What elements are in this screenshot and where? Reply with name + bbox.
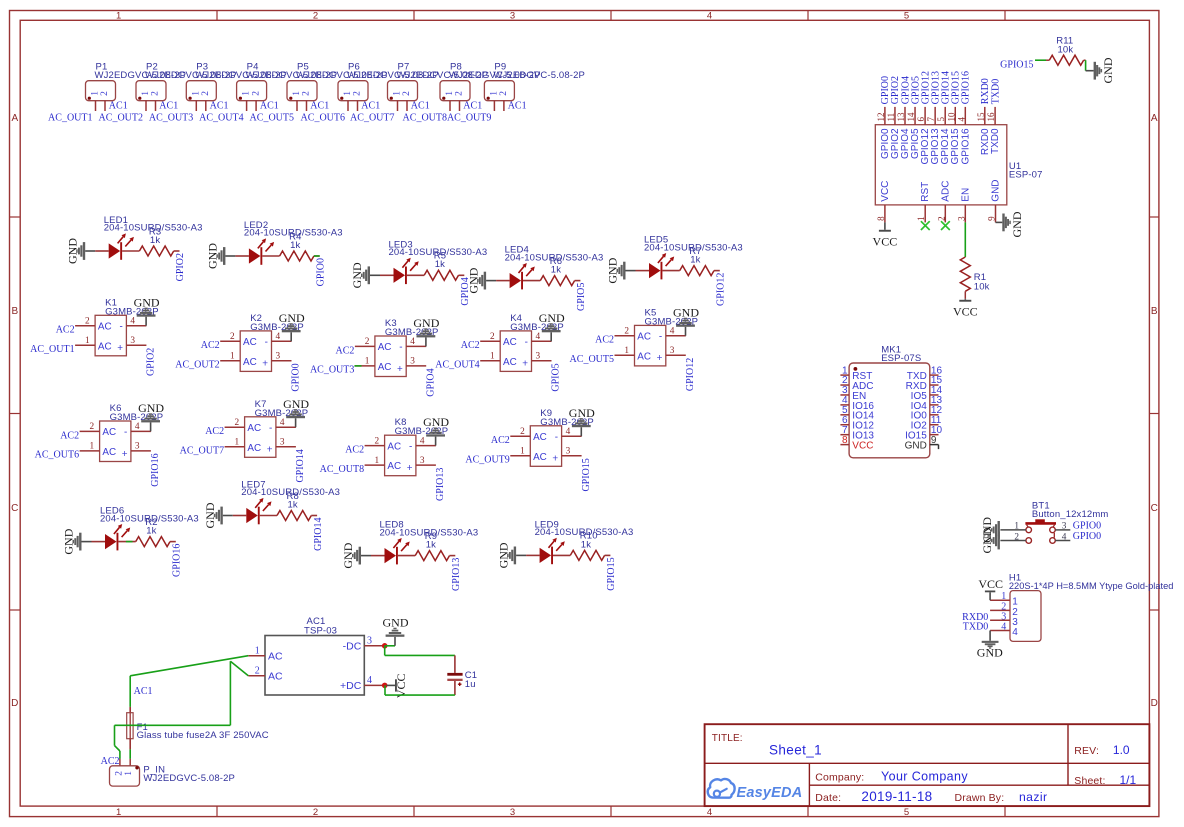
resistor R6 1k [523,256,580,286]
svg-text:D: D [11,698,18,709]
ground at LED3 [350,262,380,288]
svg-text:1: 1 [292,91,302,96]
svg-text:GPIO5: GPIO5 [576,283,587,311]
ground at K4 pin 4 [539,311,565,341]
U1 pin 16 TXD0 [986,107,1001,154]
svg-text:GPIO13: GPIO13 [451,558,462,591]
svg-text:AC1: AC1 [411,101,430,112]
svg-text:Drawn By:: Drawn By: [955,792,1005,804]
svg-text:4: 4 [707,807,712,818]
svg-text:VCC: VCC [873,235,898,249]
svg-text:1: 1 [230,352,235,362]
svg-text:+: + [122,449,128,460]
svg-text:GPIO15: GPIO15 [581,458,592,491]
svg-text:+: + [267,445,273,456]
svg-text:1k: 1k [551,265,561,276]
svg-text:-: - [120,321,123,332]
svg-text:VCC: VCC [852,441,873,452]
resistor R9 1k [398,531,455,561]
U1 pin 9 GND [987,179,1002,222]
svg-text:ESP-07S: ESP-07S [881,353,921,364]
MK1 pin 4 IO16 [840,395,874,412]
wire F1 to P_IN pin 1 [129,749,131,759]
svg-text:AC2: AC2 [56,325,75,336]
svg-text:2: 2 [201,91,211,96]
U1 pin 15 RXD0 [976,107,991,155]
svg-text:4: 4 [1012,627,1018,638]
svg-text:2: 2 [313,807,318,818]
connector P6 [338,62,439,111]
resistor R5 1k [407,251,464,281]
svg-text:-DC: -DC [343,640,362,652]
H1 pin 4 [990,622,1018,639]
svg-text:1: 1 [365,357,370,367]
svg-text:2: 2 [151,91,161,96]
wire to R11 [1035,59,1046,61]
svg-text:GND: GND [673,305,699,319]
svg-text:Date:: Date: [815,792,841,804]
svg-text:AC_OUT4: AC_OUT4 [199,112,243,123]
svg-text:AC2: AC2 [345,445,364,456]
svg-text:4: 4 [367,675,372,686]
module MK1 ESP-07S [849,345,930,458]
svg-text:Sheet:: Sheet: [1074,775,1105,787]
svg-text:+: + [262,359,268,370]
svg-text:1: 1 [124,771,134,776]
svg-text:GND: GND [977,645,1003,659]
svg-text:4: 4 [956,117,966,122]
svg-text:-: - [525,337,528,348]
svg-text:GND: GND [539,311,565,325]
svg-text:3: 3 [367,636,372,647]
svg-text:AC2: AC2 [461,340,480,351]
svg-text:9: 9 [987,216,997,221]
svg-text:WJ2EDGVC-5.08-2P: WJ2EDGVC-5.08-2P [143,773,235,784]
svg-text:1: 1 [255,645,260,656]
svg-text:1: 1 [343,91,353,96]
ground at LED2 [206,243,236,269]
resistor R11 10k [1046,36,1086,66]
wire C1 to +DC [385,685,455,695]
svg-text:GND: GND [466,267,480,293]
AC1 pin 1 AC [248,645,283,662]
svg-text:1: 1 [191,91,201,96]
no-connect X at U1 RST [921,221,930,230]
svg-text:ADC: ADC [940,181,951,202]
svg-text:1: 1 [91,91,101,96]
svg-text:1: 1 [1014,522,1019,532]
module U1 ESP-07 [875,125,1042,205]
svg-text:C: C [1151,503,1158,514]
svg-text:AC: AC [533,432,547,443]
MK1 pin 1 RST [840,365,872,382]
svg-text:10: 10 [946,112,956,122]
svg-text:3: 3 [420,456,425,466]
svg-text:11: 11 [886,113,896,122]
power module AC1 TSP-03 [265,616,364,695]
svg-text:4: 4 [566,427,571,437]
svg-text:2: 2 [520,427,525,437]
svg-text:AC: AC [378,362,392,373]
AC1 pin 2 AC [248,665,283,682]
svg-text:4: 4 [1062,532,1067,542]
svg-text:AC_OUT2: AC_OUT2 [175,360,219,371]
power VCC at AC1 +DC [387,673,408,698]
ground at R11 [1086,57,1115,83]
connector P8 [440,62,541,111]
svg-text:GND: GND [341,542,355,568]
svg-text:TXD0: TXD0 [990,128,1001,154]
svg-text:AC1: AC1 [361,101,380,112]
connector P3 [186,62,287,111]
svg-text:AC_OUT7: AC_OUT7 [180,445,224,456]
svg-text:EasyEDA: EasyEDA [737,785,803,801]
svg-text:GND: GND [905,441,927,452]
LED LED5 [636,235,743,280]
svg-text:AC2: AC2 [201,340,220,351]
svg-text:AC1: AC1 [508,101,527,112]
svg-text:C: C [11,503,18,514]
svg-text:1: 1 [490,352,495,362]
svg-text:2: 2 [234,418,239,428]
button BT1 Button_12x12mm [1000,501,1108,544]
svg-text:GND: GND [413,316,439,330]
header H1 220S-1*4P [1009,572,1174,641]
svg-text:1: 1 [234,438,239,448]
svg-text:+: + [552,454,558,465]
svg-text:-: - [409,441,412,452]
svg-text:GPIO0: GPIO0 [315,258,326,286]
svg-text:AC_OUT9: AC_OUT9 [465,454,509,465]
svg-text:1: 1 [520,447,525,457]
svg-text:4: 4 [280,418,285,428]
svg-text:2: 2 [255,665,260,676]
svg-text:AC2: AC2 [205,426,224,437]
svg-text:GPIO14: GPIO14 [295,449,306,482]
svg-text:AC_OUT7: AC_OUT7 [350,112,394,123]
junction at +DC [382,683,388,689]
svg-text:GPIO4: GPIO4 [425,368,436,396]
svg-text:2: 2 [302,91,312,96]
svg-text:15: 15 [976,112,986,122]
svg-text:13: 13 [896,112,906,122]
svg-text:1: 1 [445,91,455,96]
capacitor C1 1u [447,655,477,695]
junction at -DC [382,643,388,649]
U1 pin 12 GPIO0 [876,107,891,159]
svg-text:nazir: nazir [1019,790,1047,804]
MK1 pin 16 TXD [907,365,943,382]
svg-text:GND: GND [991,179,1002,201]
resistor R3 1k [122,226,179,256]
ground at K7 pin 4 [283,397,309,427]
svg-text:2: 2 [365,337,370,347]
connector P4 [237,62,338,111]
U1 pin 13 GPIO4 [896,107,911,159]
svg-text:1: 1 [374,456,379,466]
svg-text:2: 2 [936,216,946,221]
svg-text:GND: GND [206,243,220,269]
ground at K5 pin 4 [673,305,699,335]
svg-text:GPIO0: GPIO0 [291,363,302,391]
MK1 pin 2 ADC [840,375,873,392]
ground at K3 pin 4 [413,316,439,346]
MK1 pin 11 IO2 [911,415,942,432]
svg-text:1u: 1u [465,679,476,690]
svg-text:Company:: Company: [815,772,864,784]
frame column numbers bottom [116,807,909,818]
svg-text:AC_OUT8: AC_OUT8 [403,112,447,123]
svg-text:AC1: AC1 [109,101,128,112]
svg-text:AC_OUT5: AC_OUT5 [250,112,294,123]
svg-text:TITLE:: TITLE: [712,733,743,744]
svg-text:4: 4 [536,332,541,342]
svg-text:2: 2 [85,317,90,327]
svg-text:AC1: AC1 [159,101,178,112]
svg-text:4: 4 [276,332,281,342]
U1 pin 11 GPIO2 [886,107,901,159]
resistor R7 1k [662,246,719,276]
svg-text:220S-1*4P H=8.5MM Ytype Gold-p: 220S-1*4P H=8.5MM Ytype Gold-plated [1009,581,1174,592]
svg-text:VCC: VCC [978,577,1003,591]
svg-text:GPIO15: GPIO15 [606,557,617,590]
svg-text:GND: GND [134,295,160,309]
ground at LED8 [341,542,371,568]
svg-text:8: 8 [876,216,886,221]
svg-text:AC: AC [503,357,517,368]
svg-text:GPIO16: GPIO16 [960,128,971,165]
svg-text:AC2: AC2 [335,345,354,356]
svg-text:4: 4 [670,327,675,337]
svg-text:+: + [117,343,123,354]
wire -DC to C1 [385,646,455,656]
svg-text:+: + [657,353,663,364]
svg-text:GND: GND [1010,211,1024,237]
svg-text:Sheet_1: Sheet_1 [769,743,822,758]
svg-text:GND: GND [62,528,76,554]
svg-text:8: 8 [842,435,848,446]
ground at H1 pin 4 [977,631,1003,660]
MK1 pin 14 IO5 [911,385,943,402]
svg-text:2: 2 [624,327,629,337]
svg-text:AC: AC [378,342,392,353]
connector P7 [388,62,489,111]
svg-text:1: 1 [85,336,90,346]
svg-text:TSP-03: TSP-03 [304,626,337,637]
svg-text:AC: AC [102,447,116,458]
svg-text:2: 2 [374,436,379,446]
svg-text:3: 3 [280,438,285,448]
svg-text:3: 3 [510,807,515,818]
svg-text:4: 4 [1001,622,1006,633]
svg-text:2: 2 [100,91,110,96]
ground at K6 pin 4 [138,401,164,431]
frame ruler ticks bottom [217,806,1005,817]
resistor R4 1k [262,231,319,261]
LED LED8 [371,520,478,565]
power VCC at H1 pin 1 [978,577,1003,600]
connector P_IN [110,759,236,786]
svg-text:AC_OUT9: AC_OUT9 [447,112,491,123]
U1 pin 7 GPIO13 [926,107,941,165]
svg-text:+: + [407,463,413,474]
ground at LED9 [496,542,526,568]
relay K8 G3MB-202P [365,417,449,476]
no-connect X at U1 ADC [941,221,950,230]
relay K2 G3MB-202P [220,313,304,372]
svg-text:AC: AC [247,423,261,434]
U1 pin 2 ADC [936,181,951,223]
U1 pin 5 GPIO14 [936,107,951,165]
EasyEDA logo [708,779,803,801]
svg-text:Glass tube fuse2A 3F 250VAC: Glass tube fuse2A 3F 250VAC [137,730,269,741]
svg-text:AC: AC [387,441,401,452]
svg-text:D: D [1151,698,1158,709]
svg-text:-: - [399,342,402,353]
svg-text:1k: 1k [426,540,436,551]
frame ruler ticks right [1149,217,1159,610]
svg-text:9: 9 [931,435,937,446]
MK1 pin 7 IO13 [840,425,874,442]
MK1 pin 13 IO4 [911,395,943,412]
svg-text:AC2: AC2 [60,430,79,441]
svg-text:GPIO16: GPIO16 [150,453,161,486]
svg-text:GPIO13: GPIO13 [435,468,446,501]
H1 pin 1 [990,591,1018,608]
svg-text:GND: GND [496,542,510,568]
svg-text:AC: AC [503,337,517,348]
svg-text:AC: AC [243,337,257,348]
svg-text:1: 1 [393,91,403,96]
svg-text:GPIO12: GPIO12 [685,358,696,391]
svg-text:2: 2 [114,771,124,776]
svg-text:3: 3 [130,336,135,346]
resistor R2 1k [118,517,175,547]
power VCC at U1 pin 8 [873,222,898,248]
svg-text:3: 3 [410,357,415,367]
U1 pin 4 GPIO16 [956,107,971,165]
svg-text:GPIO2: GPIO2 [175,253,186,281]
resistor R8 1k [260,491,317,521]
svg-text:AC1: AC1 [463,101,482,112]
svg-text:2: 2 [230,332,235,342]
relay K4 G3MB-202P [480,313,564,372]
svg-text:4: 4 [410,337,415,347]
svg-text:5: 5 [904,807,909,818]
svg-text:+: + [397,364,403,375]
connector P9 [484,62,585,111]
svg-text:-: - [659,332,662,343]
svg-text:14: 14 [906,112,916,122]
svg-text:1: 1 [916,216,926,221]
svg-text:2: 2 [402,91,412,96]
U1 pin 8 VCC [876,181,891,223]
svg-text:AC_OUT6: AC_OUT6 [301,112,345,123]
svg-text:GND: GND [203,502,217,528]
U1 pin 3 EN [956,188,971,223]
LED LED6 [92,506,199,551]
svg-text:5: 5 [936,117,946,122]
svg-text:GND: GND [279,311,305,325]
svg-text:GND: GND [65,238,79,264]
wire AC1 pin2 to P_IN pin 2 (net AC2) [115,661,249,759]
wire AC1 pin1 to F1 (net AC1) [130,656,248,707]
svg-text:2: 2 [1014,532,1019,542]
ground at K2 pin 4 [279,311,305,341]
MK1 pin 10 IO15 [905,425,942,442]
svg-text:AC_OUT3: AC_OUT3 [310,365,354,376]
svg-text:AC1: AC1 [134,686,153,697]
svg-text:GPIO14: GPIO14 [313,518,324,551]
svg-text:1: 1 [116,11,121,22]
ground at BT1 pin 1 [980,517,1000,543]
svg-text:AC: AC [387,461,401,472]
svg-text:1k: 1k [690,255,700,266]
svg-text:5: 5 [904,11,909,22]
svg-text:3: 3 [536,352,541,362]
svg-text:1.0: 1.0 [1113,743,1130,757]
resistor R10 1k [553,531,610,561]
svg-text:GPIO5: GPIO5 [551,363,562,391]
resistor R1 10k [960,257,989,299]
svg-text:EN: EN [960,188,971,202]
svg-text:1: 1 [141,91,151,96]
svg-text:AC: AC [268,650,283,662]
svg-text:GND: GND [350,262,364,288]
wire EN to R1 [964,222,966,257]
ground at LED4 [466,267,496,293]
svg-text:GND: GND [138,401,164,415]
svg-text:GPIO0: GPIO0 [1073,531,1101,542]
wire R11 to GND [1085,60,1087,70]
svg-text:GND: GND [283,397,309,411]
LED LED9 [526,519,633,564]
relay K5 G3MB-202P [615,307,699,366]
power VCC at R1 [953,299,978,319]
svg-text:GND: GND [606,257,620,283]
svg-text:3: 3 [135,442,140,452]
ground at K9 pin 4 [569,406,595,436]
svg-text:AC_OUT1: AC_OUT1 [30,344,74,355]
svg-text:12: 12 [876,113,886,122]
svg-text:AC_OUT6: AC_OUT6 [35,450,79,461]
svg-text:AC: AC [533,452,547,463]
svg-text:2: 2 [313,11,318,22]
svg-text:AC: AC [98,341,112,352]
connector P5 [287,62,388,111]
svg-text:1: 1 [89,442,94,452]
svg-text:GND: GND [1101,57,1115,83]
H1 pin 2 [990,601,1018,618]
LED LED3 [380,239,487,284]
ground at LED1 [65,238,95,264]
LED LED4 [496,245,603,290]
svg-text:ESP-07: ESP-07 [1009,170,1043,181]
svg-text:GPIO16: GPIO16 [172,544,183,577]
svg-text:4: 4 [130,317,135,327]
svg-text:3: 3 [510,11,515,22]
svg-text:AC2: AC2 [491,435,510,446]
svg-text:3: 3 [276,352,281,362]
relay K1 G3MB-202P [75,297,159,356]
svg-text:+DC: +DC [340,680,362,692]
svg-text:+: + [522,359,528,370]
AC1 pin 4 +DC [340,675,385,692]
svg-text:3: 3 [566,447,571,457]
svg-text:2: 2 [455,91,465,96]
svg-text:VCC: VCC [880,181,891,202]
svg-text:-: - [265,337,268,348]
